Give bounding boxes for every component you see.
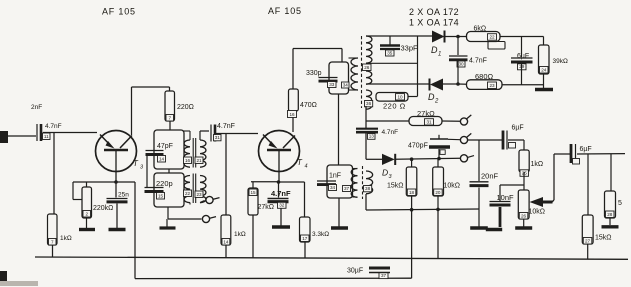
svg-text:4.7nF: 4.7nF: [45, 123, 62, 130]
svg-text:20nF: 20nF: [481, 172, 499, 181]
svg-text:16: 16: [289, 112, 295, 117]
svg-text:31: 31: [426, 119, 432, 124]
svg-text:15kΩ: 15kΩ: [387, 183, 404, 190]
svg-text:1: 1: [438, 52, 441, 58]
svg-text:5: 5: [618, 200, 622, 207]
svg-text:14: 14: [223, 239, 229, 244]
svg-text:D: D: [431, 45, 438, 55]
svg-text:D: D: [382, 168, 388, 178]
svg-text:220 Ω: 220 Ω: [383, 102, 406, 111]
svg-text:2: 2: [85, 211, 88, 216]
svg-text:AF 105: AF 105: [102, 7, 136, 17]
svg-text:470Ω: 470Ω: [300, 102, 317, 109]
svg-text:470pF: 470pF: [408, 143, 428, 150]
svg-text:15: 15: [250, 190, 256, 195]
svg-text:6µF: 6µF: [580, 146, 592, 153]
svg-text:16: 16: [185, 158, 191, 163]
svg-text:37: 37: [381, 273, 387, 278]
svg-text:39kΩ: 39kΩ: [553, 58, 568, 65]
svg-text:27kΩ: 27kΩ: [258, 204, 275, 211]
svg-text:6µF: 6µF: [512, 125, 524, 132]
svg-text:22: 22: [185, 191, 191, 196]
svg-text:38: 38: [365, 186, 371, 191]
svg-text:330p: 330p: [306, 70, 322, 77]
svg-text:10: 10: [397, 94, 403, 99]
svg-text:AF 105: AF 105: [268, 6, 302, 16]
svg-text:30µF: 30µF: [347, 268, 363, 275]
svg-text:1nF: 1nF: [329, 173, 341, 180]
svg-text:26: 26: [364, 65, 370, 70]
svg-text:1kΩ: 1kΩ: [60, 235, 72, 242]
svg-text:21: 21: [196, 158, 202, 163]
svg-text:220Ω: 220Ω: [177, 104, 194, 111]
svg-text:1kΩ: 1kΩ: [234, 231, 246, 238]
svg-text:30: 30: [458, 61, 464, 66]
svg-text:220p: 220p: [156, 179, 173, 188]
svg-text:28: 28: [607, 212, 613, 217]
svg-text:2 X OA 172: 2 X OA 172: [409, 7, 459, 17]
svg-text:220kΩ: 220kΩ: [93, 205, 113, 212]
svg-text:1kΩ: 1kΩ: [531, 161, 544, 168]
svg-text:34: 34: [343, 82, 349, 87]
svg-text:2nF: 2nF: [31, 104, 42, 111]
svg-text:24: 24: [541, 67, 547, 72]
svg-text:D: D: [428, 92, 435, 102]
svg-text:33pF: 33pF: [401, 44, 419, 53]
svg-text:10nF: 10nF: [497, 193, 515, 202]
svg-text:34: 34: [330, 185, 336, 190]
svg-text:1 X OA 174: 1 X OA 174: [409, 18, 459, 28]
svg-text:23: 23: [489, 83, 495, 88]
svg-text:10kΩ: 10kΩ: [529, 209, 546, 216]
svg-text:15kΩ: 15kΩ: [595, 235, 612, 242]
svg-text:4.7nF: 4.7nF: [271, 189, 291, 198]
svg-text:6µF: 6µF: [517, 53, 529, 60]
svg-text:2: 2: [434, 99, 439, 105]
svg-text:47pF: 47pF: [157, 143, 173, 150]
svg-text:4.7nF: 4.7nF: [217, 123, 235, 130]
svg-text:22: 22: [489, 35, 495, 40]
svg-text:20: 20: [435, 190, 441, 195]
svg-text:35: 35: [387, 50, 393, 55]
svg-text:4: 4: [305, 164, 308, 170]
svg-text:27: 27: [585, 238, 591, 243]
svg-text:31: 31: [215, 135, 221, 140]
svg-text:3.3kΩ: 3.3kΩ: [312, 231, 329, 238]
svg-text:14: 14: [159, 156, 165, 161]
svg-text:23: 23: [196, 192, 202, 197]
svg-text:33: 33: [329, 82, 335, 87]
svg-text:26: 26: [521, 213, 527, 218]
svg-text:15: 15: [158, 193, 164, 198]
svg-text:7: 7: [51, 239, 54, 244]
svg-text:37: 37: [344, 186, 350, 191]
svg-text:4.7nF: 4.7nF: [469, 58, 487, 65]
svg-text:10kΩ: 10kΩ: [444, 183, 461, 190]
svg-text:25n: 25n: [118, 192, 129, 199]
svg-text:11: 11: [44, 134, 49, 139]
svg-text:32: 32: [279, 203, 285, 208]
svg-text:13: 13: [369, 134, 375, 139]
svg-text:18: 18: [409, 190, 415, 195]
svg-text:7: 7: [168, 115, 171, 120]
svg-text:17: 17: [302, 236, 308, 241]
svg-text:4.7nF: 4.7nF: [382, 129, 399, 136]
svg-text:36: 36: [366, 101, 372, 106]
